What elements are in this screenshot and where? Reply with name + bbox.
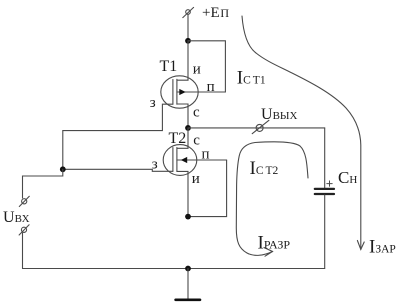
node D (bottom rail junction): [185, 266, 191, 272]
wire: node A to T1 source lead (и): [177, 41, 188, 80]
svg-text:с: с: [193, 133, 200, 149]
svg-text:IСТ1: IСТ1: [237, 68, 266, 89]
wire: +Eп terminal to node A: [187, 14, 189, 41]
svg-text:и: и: [193, 62, 201, 78]
node: left junction (gate node): [60, 166, 66, 172]
svg-text:CН: CН: [338, 168, 357, 187]
wire: capacitor to bottom rail: [324, 195, 326, 269]
T1 gate lead (з) to left column: [63, 104, 173, 169]
terminal Uвх upper: [19, 196, 29, 206]
svg-text:UВЫХ: UВЫХ: [261, 106, 297, 123]
svg-text:UВХ: UВХ: [3, 209, 30, 226]
terminal +Eп: [183, 7, 194, 17]
svg-text:T2: T2: [169, 130, 187, 147]
T2 source lead (и) down to node C: [177, 171, 188, 216]
svg-text:з: з: [150, 95, 156, 111]
svg-text:з: з: [152, 157, 158, 173]
capacitor + polarity mark: [327, 181, 332, 186]
node A (junction under +Eп): [185, 38, 191, 44]
wire: left junction to Uвх upper terminal: [23, 169, 63, 198]
svg-text:+EП: +EП: [202, 5, 229, 21]
svg-text:п: п: [207, 79, 215, 95]
wire: node D to ground: [187, 269, 189, 300]
svg-text:и: и: [192, 171, 200, 187]
transistor T1: [161, 76, 198, 108]
wire: node B to T2 drain lead (с): [177, 128, 188, 148]
node C (T2 source junction): [185, 214, 191, 220]
T2 gate lead (з) to left junction: [63, 169, 173, 171]
current Iразр loop curve with arrow: [236, 142, 308, 256]
T2 substrate arrow (n-channel, points left): [181, 157, 187, 163]
wire: node B to capacitor corner (output rail): [188, 127, 325, 129]
svg-text:IСТ2: IСТ2: [250, 158, 279, 179]
svg-text:с: с: [193, 105, 200, 121]
svg-text:IЗАР: IЗАР: [369, 237, 396, 258]
wire: T1 substrate loop (п to +Eп rail): [188, 41, 225, 92]
T1 drain lead (с) down to node B: [177, 104, 188, 128]
svg-text:IРАЗР: IРАЗР: [258, 233, 291, 254]
transistor T2: [163, 145, 226, 176]
ground: [176, 298, 200, 301]
terminal Uвых: [252, 120, 269, 133]
current Iзар flow curve with arrow: [242, 16, 364, 250]
wire: bottom rail: [23, 268, 325, 270]
capacitor Cн: [315, 189, 334, 194]
node B (output node): [185, 125, 191, 131]
wire: Uвх lower terminal to bottom rail: [22, 233, 24, 269]
svg-text:п: п: [202, 147, 210, 163]
wire: output corner down to capacitor: [324, 128, 326, 188]
terminal Uвх lower: [19, 225, 29, 235]
T1 substrate arrow (p-channel, points right): [179, 89, 185, 95]
wire: T2 substrate loop (п to source node C): [188, 160, 227, 217]
svg-text:T1: T1: [160, 58, 178, 75]
